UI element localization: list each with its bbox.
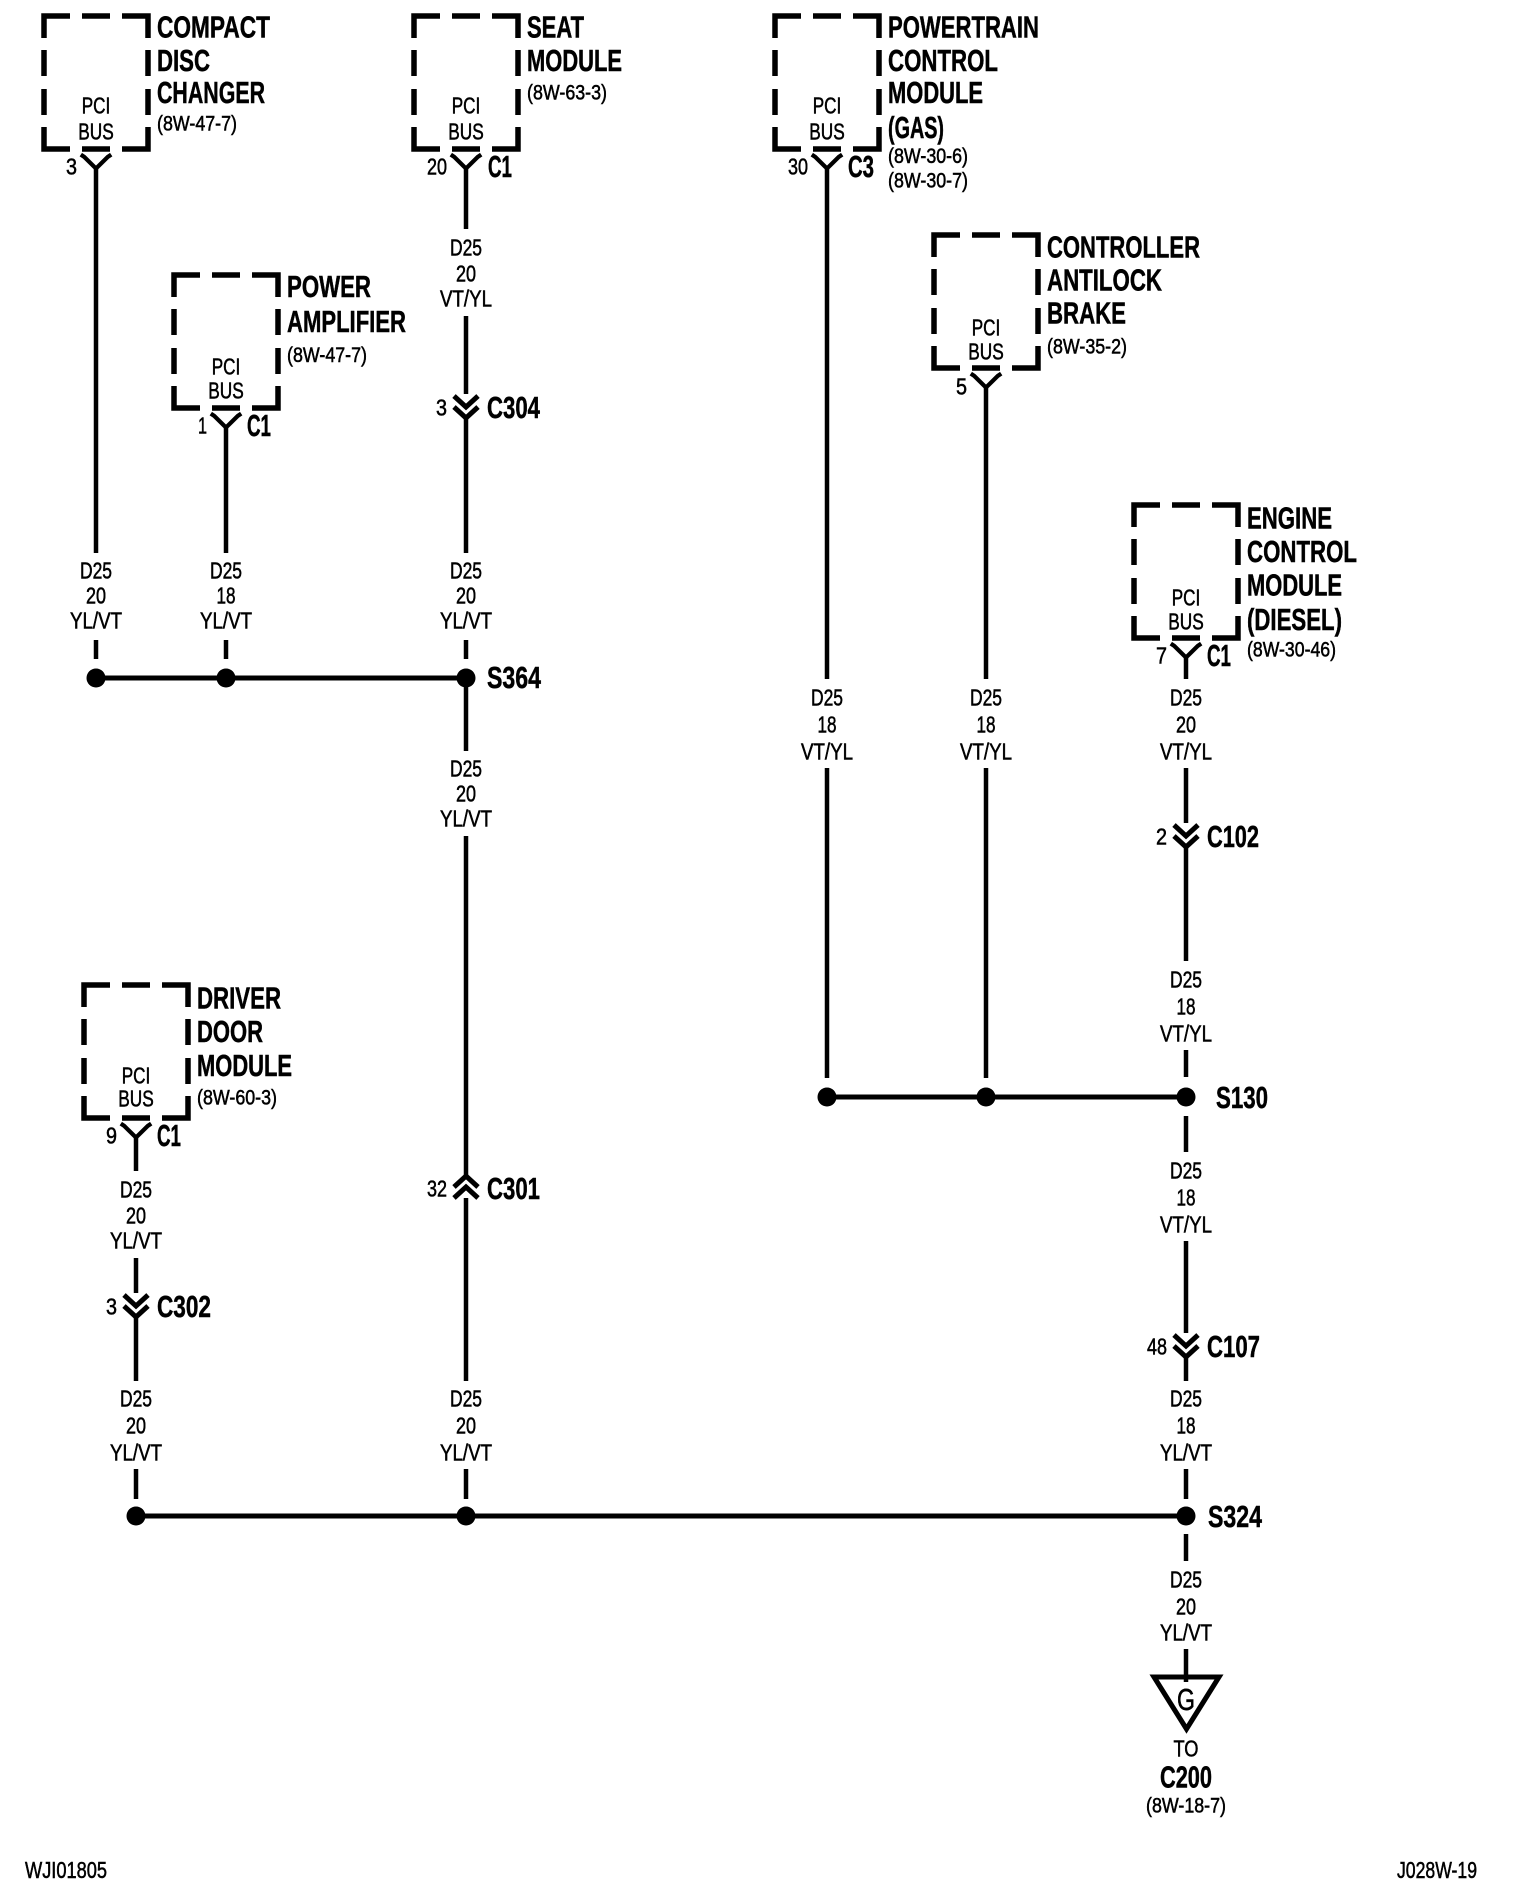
junction at seat / S324 [457,1507,476,1526]
svg-text:2: 2 [1156,823,1167,849]
svg-text:DOOR: DOOR [197,1015,263,1049]
svg-text:D25: D25 [970,684,1002,710]
svg-text:D25: D25 [1170,684,1202,710]
svg-text:YL/VT: YL/VT [440,805,492,831]
svg-text:PCI: PCI [1172,584,1201,610]
wire to splice S364 [94,640,99,659]
svg-text:PCI: PCI [813,92,842,118]
svg-text:C301: C301 [487,1172,540,1206]
wire D25 20 VT/YL from ECM [1184,658,1189,680]
svg-text:DISC: DISC [157,44,210,78]
wire D25 18 VT/YL from CAB [984,388,989,680]
svg-text:BUS: BUS [448,118,484,144]
splice bus S324 [136,1514,1186,1519]
svg-text:1: 1 [198,412,207,438]
svg-text:7: 7 [1156,642,1167,668]
svg-text:9: 9 [106,1122,117,1148]
junction at seat / S364 [457,669,476,688]
svg-text:20: 20 [86,582,106,608]
svg-text:YL/VT: YL/VT [1160,1439,1212,1465]
svg-text:D25: D25 [450,557,482,583]
svg-text:(8W-60-3): (8W-60-3) [197,1086,277,1110]
svg-text:48: 48 [1147,1333,1167,1359]
svg-text:(8W-47-7): (8W-47-7) [157,112,237,136]
svg-text:G: G [1177,1683,1195,1717]
svg-text:C304: C304 [487,391,540,425]
svg-text:YL/VT: YL/VT [70,607,122,633]
svg-text:C1: C1 [247,409,271,443]
svg-text:D25: D25 [811,684,843,710]
svg-text:CHANGER: CHANGER [157,76,265,110]
svg-text:PCI: PCI [452,92,481,118]
wire below C102 [1184,847,1189,961]
svg-text:C1: C1 [157,1119,181,1153]
svg-text:3: 3 [106,1293,117,1319]
svg-text:32: 32 [427,1175,447,1201]
junction at CAB / S130 [977,1088,996,1107]
wire to splice S130 [984,768,989,1078]
wire to splice S364 [464,640,469,659]
svg-text:30: 30 [788,153,808,179]
svg-text:20: 20 [456,1412,476,1438]
in-line connector C102 [1174,825,1198,847]
wire to splice S130 [1184,1050,1189,1077]
wire D25 18 YL/VT from PA [224,428,229,554]
wire D25 20 YL/VT from DDM [134,1138,139,1172]
svg-text:D25: D25 [450,234,482,260]
svg-text:D25: D25 [1170,1566,1202,1592]
wire to splice S130 [825,768,830,1078]
svg-text:YL/VT: YL/VT [110,1439,162,1465]
svg-text:MODULE: MODULE [888,76,983,110]
svg-text:YL/VT: YL/VT [110,1227,162,1253]
svg-text:DRIVER: DRIVER [197,981,281,1015]
svg-text:20: 20 [126,1202,146,1228]
svg-text:C200: C200 [1160,1760,1212,1794]
connector Y (ECM pin 7) [1171,644,1201,658]
svg-text:18: 18 [1177,1412,1196,1438]
wire below C301 [464,1198,469,1381]
svg-text:BUS: BUS [208,377,244,403]
svg-text:(8W-47-7): (8W-47-7) [287,343,367,367]
svg-text:TO: TO [1174,1735,1199,1761]
wire below C302 [134,1317,139,1381]
svg-text:PCI: PCI [82,92,111,118]
svg-text:ANTILOCK: ANTILOCK [1047,263,1162,297]
svg-text:20: 20 [1176,1593,1196,1619]
svg-text:3: 3 [436,394,447,420]
connector Y (PA pin 1) [211,414,241,428]
svg-text:20: 20 [456,260,476,286]
svg-text:S324: S324 [1208,1500,1262,1534]
svg-text:D25: D25 [450,755,482,781]
svg-text:20: 20 [1176,711,1196,737]
svg-text:BUS: BUS [1168,608,1204,634]
svg-text:MODULE: MODULE [527,44,622,78]
svg-text:C107: C107 [1207,1330,1260,1364]
svg-text:(8W-18-7): (8W-18-7) [1146,1794,1226,1818]
svg-text:(8W-35-2): (8W-35-2) [1047,335,1127,359]
svg-text:(8W-30-46): (8W-30-46) [1247,638,1336,662]
junction at PCM / S130 [818,1088,837,1107]
svg-text:D25: D25 [1170,1157,1202,1183]
svg-text:BUS: BUS [78,118,114,144]
svg-text:YL/VT: YL/VT [440,1439,492,1465]
svg-text:C1: C1 [488,150,512,184]
svg-text:YL/VT: YL/VT [200,607,252,633]
svg-text:D25: D25 [210,557,242,583]
junction at CDC / S364 [87,669,106,688]
svg-text:AMPLIFIER: AMPLIFIER [287,305,406,339]
module box: SEAT MODULE [414,16,518,149]
svg-text:WJI01805: WJI01805 [25,1857,107,1883]
in-line connector C107 [1174,1335,1198,1357]
wire D25 20 YL/VT from CDC [94,169,99,554]
in-line connector C304 [454,396,478,418]
svg-text:18: 18 [818,711,837,737]
module box: POWER AMPLIFIER [174,275,278,408]
wire D25 18 VT/YL from PCM [825,169,830,680]
svg-text:20: 20 [456,780,476,806]
module box: CONTROLLER ANTILOCK BRAKE [934,235,1038,368]
svg-text:S130: S130 [1216,1081,1268,1115]
svg-text:COMPACT: COMPACT [157,11,270,45]
wire to splice S324 [1184,1469,1189,1499]
connector Y (CAB pin 5) [971,374,1001,388]
svg-text:(DIESEL): (DIESEL) [1247,603,1342,637]
svg-text:J028W-19: J028W-19 [1397,1857,1477,1883]
wire below C107 [1184,1357,1189,1381]
svg-text:VT/YL: VT/YL [440,285,492,311]
in-line connector C302 [124,1295,148,1317]
svg-text:(8W-63-3): (8W-63-3) [527,81,607,105]
svg-text:C1: C1 [1207,639,1231,673]
svg-text:D25: D25 [80,557,112,583]
svg-text:MODULE: MODULE [197,1049,292,1083]
ground symbol G [1154,1677,1219,1729]
splice bus S364 [96,676,466,681]
wire to splice S364 [224,640,229,659]
svg-text:BRAKE: BRAKE [1047,296,1126,330]
wire to ground [1184,1649,1189,1682]
junction at PA / S364 [217,669,236,688]
junction at ECM / S324 [1177,1507,1196,1526]
svg-text:20: 20 [126,1412,146,1438]
svg-text:D25: D25 [1170,1385,1202,1411]
svg-text:VT/YL: VT/YL [1160,1211,1212,1237]
wire to splice S324 [134,1469,139,1499]
svg-text:YL/VT: YL/VT [1160,1619,1212,1645]
svg-text:PCI: PCI [972,314,1001,340]
svg-text:MODULE: MODULE [1247,568,1342,602]
wire to C301 [464,836,469,1176]
wire D25 20 YL/VT below C304 [464,418,469,553]
wire below S130 [1184,1116,1189,1152]
svg-text:C3: C3 [848,150,874,184]
svg-text:C302: C302 [157,1290,211,1324]
connector Y (PCM pin 30) [812,155,842,169]
splice bus S130 [827,1095,1186,1100]
svg-text:CONTROL: CONTROL [888,44,998,78]
svg-text:VT/YL: VT/YL [960,738,1012,764]
connector Y (CDC pin 3) [81,155,111,169]
wire to C302 [134,1258,139,1293]
svg-text:POWERTRAIN: POWERTRAIN [888,11,1039,45]
svg-text:3: 3 [66,153,77,179]
connector Y (DDM pin 9) [121,1124,151,1138]
svg-text:(GAS): (GAS) [888,111,944,145]
svg-text:VT/YL: VT/YL [1160,1020,1212,1046]
svg-text:BUS: BUS [118,1085,154,1111]
module box: COMPACT DISC CHANGER [44,16,148,149]
junction at DDM / S324 [127,1507,146,1526]
svg-text:S364: S364 [487,661,541,695]
svg-text:18: 18 [217,582,236,608]
connector Y (seat pin 20) [451,155,481,169]
svg-text:(8W-30-7): (8W-30-7) [888,169,968,193]
svg-text:CONTROLLER: CONTROLLER [1047,230,1200,264]
module box: POWERTRAIN CONTROL MODULE (GAS) [775,16,879,149]
wire below S364 [464,678,469,751]
wire to C304 [464,316,469,394]
svg-text:20: 20 [427,153,447,179]
svg-text:POWER: POWER [287,270,371,304]
svg-text:20: 20 [456,582,476,608]
wire to splice S324 [464,1469,469,1499]
svg-text:18: 18 [977,711,996,737]
svg-text:BUS: BUS [809,118,845,144]
svg-text:YL/VT: YL/VT [440,607,492,633]
wire from seat module [464,169,469,230]
svg-text:D25: D25 [450,1385,482,1411]
svg-text:VT/YL: VT/YL [1160,738,1212,764]
svg-text:(8W-30-6): (8W-30-6) [888,144,968,168]
svg-text:ENGINE: ENGINE [1247,501,1332,535]
in-line connector C301 [454,1176,478,1198]
wire to C107 [1184,1241,1189,1333]
wire to C102 [1184,768,1189,823]
svg-text:18: 18 [1177,1184,1196,1210]
svg-text:SEAT: SEAT [527,11,584,45]
svg-text:D25: D25 [120,1176,152,1202]
svg-text:CONTROL: CONTROL [1247,535,1357,569]
svg-text:BUS: BUS [968,338,1004,364]
svg-text:C102: C102 [1207,820,1259,854]
svg-text:D25: D25 [1170,966,1202,992]
module box: DRIVER DOOR MODULE [84,985,188,1118]
svg-text:VT/YL: VT/YL [801,738,853,764]
svg-text:PCI: PCI [212,353,241,379]
svg-text:D25: D25 [120,1385,152,1411]
wire below S324 [1184,1534,1189,1561]
svg-text:5: 5 [956,373,967,399]
svg-text:18: 18 [1177,993,1196,1019]
module box: ENGINE CONTROL MODULE (DIESEL) [1134,505,1238,638]
junction at ECM / S130 [1177,1088,1196,1107]
